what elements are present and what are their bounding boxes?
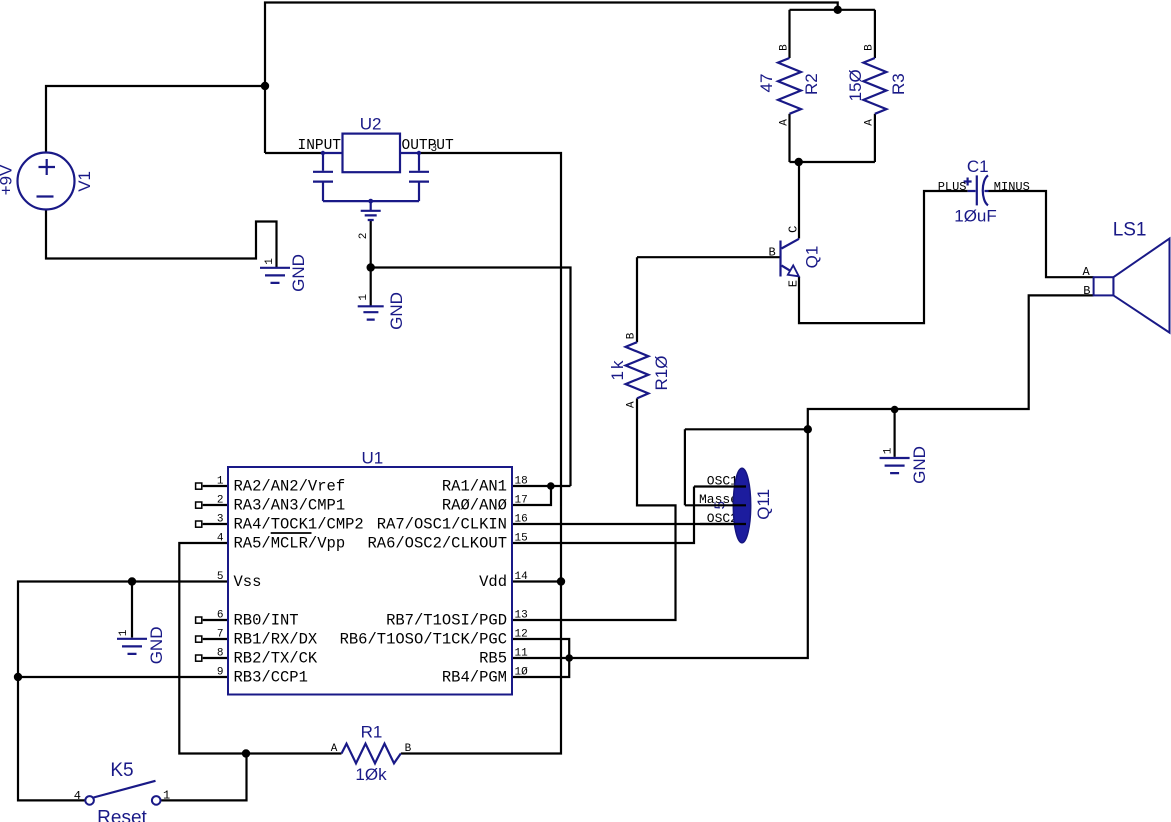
svg-text:Q11: Q11 [754,489,773,520]
svg-text:15: 15 [515,533,528,545]
svg-text:2: 2 [358,233,370,240]
svg-text:3: 3 [431,143,438,155]
svg-text:B: B [626,332,638,339]
svg-text:Reset: Reset [97,808,147,822]
svg-text:18: 18 [515,476,528,488]
svg-text:RA2/AN2/Vref: RA2/AN2/Vref [234,477,346,495]
svg-text:6: 6 [217,610,224,622]
svg-text:4: 4 [217,533,224,545]
svg-text:RA7/OSC1/CLKIN: RA7/OSC1/CLKIN [377,515,507,533]
svg-text:V1: V1 [75,171,94,192]
svg-text:1ØuF: 1ØuF [954,206,997,225]
svg-text:1: 1 [358,294,370,301]
svg-text:RA5/MCLR/Vpp: RA5/MCLR/Vpp [234,534,346,552]
svg-text:B: B [405,743,412,755]
svg-text:47: 47 [757,74,776,93]
svg-text:12: 12 [515,629,528,641]
svg-text:1Ø: 1Ø [515,667,529,679]
svg-text:1Øk: 1Øk [355,765,387,784]
svg-text:15Ø: 15Ø [846,69,865,101]
svg-text:A: A [626,401,638,408]
svg-text:2: 2 [217,495,224,507]
svg-text:9: 9 [217,667,224,679]
svg-text:GND: GND [387,292,406,330]
svg-text:B: B [778,44,790,51]
svg-text:RB5: RB5 [479,649,507,667]
svg-text:R3: R3 [889,73,908,95]
svg-text:+9V: +9V [0,164,16,195]
svg-text:RB0/INT: RB0/INT [234,611,299,629]
svg-text:13: 13 [515,610,528,622]
svg-text:GND: GND [289,254,308,292]
svg-text:1: 1 [163,788,170,802]
svg-text:RA4/TOCK1/CMP2: RA4/TOCK1/CMP2 [234,515,364,533]
svg-text:C: C [787,226,801,233]
svg-text:LS1: LS1 [1113,219,1147,240]
svg-text:OUTPUT: OUTPUT [402,138,455,154]
svg-text:B: B [1083,284,1090,298]
svg-text:B: B [769,245,776,259]
svg-text:1: 1 [264,258,276,265]
svg-text:B: B [864,44,876,51]
svg-text:3: 3 [217,514,224,526]
svg-text:C1: C1 [967,157,989,176]
svg-text:GND: GND [910,446,929,484]
svg-text:RB1/RX/DX: RB1/RX/DX [234,630,318,648]
svg-text:RB2/TX/CK: RB2/TX/CK [234,649,318,667]
svg-text:4: 4 [74,789,81,803]
svg-text:MINUS: MINUS [994,180,1030,194]
svg-text:R1Ø: R1Ø [652,356,671,391]
svg-text:1: 1 [883,447,895,454]
svg-text:RA1/AN1: RA1/AN1 [442,477,507,495]
svg-text:U1: U1 [362,449,384,468]
svg-text:INPUT: INPUT [298,138,342,154]
svg-text:RB3/CCP1: RB3/CCP1 [234,668,308,686]
svg-text:14: 14 [515,571,529,583]
svg-text:A: A [1083,265,1091,279]
svg-text:A: A [778,119,790,126]
svg-text:RA3/AN3/CMP1: RA3/AN3/CMP1 [234,496,346,514]
svg-text:GND: GND [147,627,166,665]
svg-text:A: A [864,119,876,126]
svg-text:Q1: Q1 [803,246,822,269]
svg-text:RAØ/ANØ: RAØ/ANØ [442,496,507,514]
svg-text:RB4/PGM: RB4/PGM [442,668,507,686]
svg-text:K5: K5 [110,760,133,781]
svg-text:RB7/T1OSI/PGD: RB7/T1OSI/PGD [386,611,507,629]
svg-text:16: 16 [515,514,528,526]
svg-text:R1: R1 [361,723,383,742]
svg-text:8: 8 [217,648,224,660]
svg-text:E: E [787,280,801,287]
svg-text:17: 17 [515,495,528,507]
svg-text:7: 7 [217,629,224,641]
svg-text:RA6/OSC2/CLKOUT: RA6/OSC2/CLKOUT [367,534,507,552]
svg-text:Vss: Vss [234,573,262,591]
svg-text:RB6/T1OSO/T1CK/PGC: RB6/T1OSO/T1CK/PGC [340,630,507,648]
svg-text:PLUS: PLUS [938,180,967,194]
svg-text:1k: 1k [608,359,627,381]
svg-text:A: A [331,743,338,755]
svg-text:1: 1 [217,476,224,488]
svg-text:U2: U2 [360,115,382,134]
svg-text:R2: R2 [802,73,821,95]
svg-text:5: 5 [217,571,224,583]
svg-text:1: 1 [118,629,130,636]
svg-text:11: 11 [515,648,529,660]
svg-text:Vdd: Vdd [479,573,507,591]
